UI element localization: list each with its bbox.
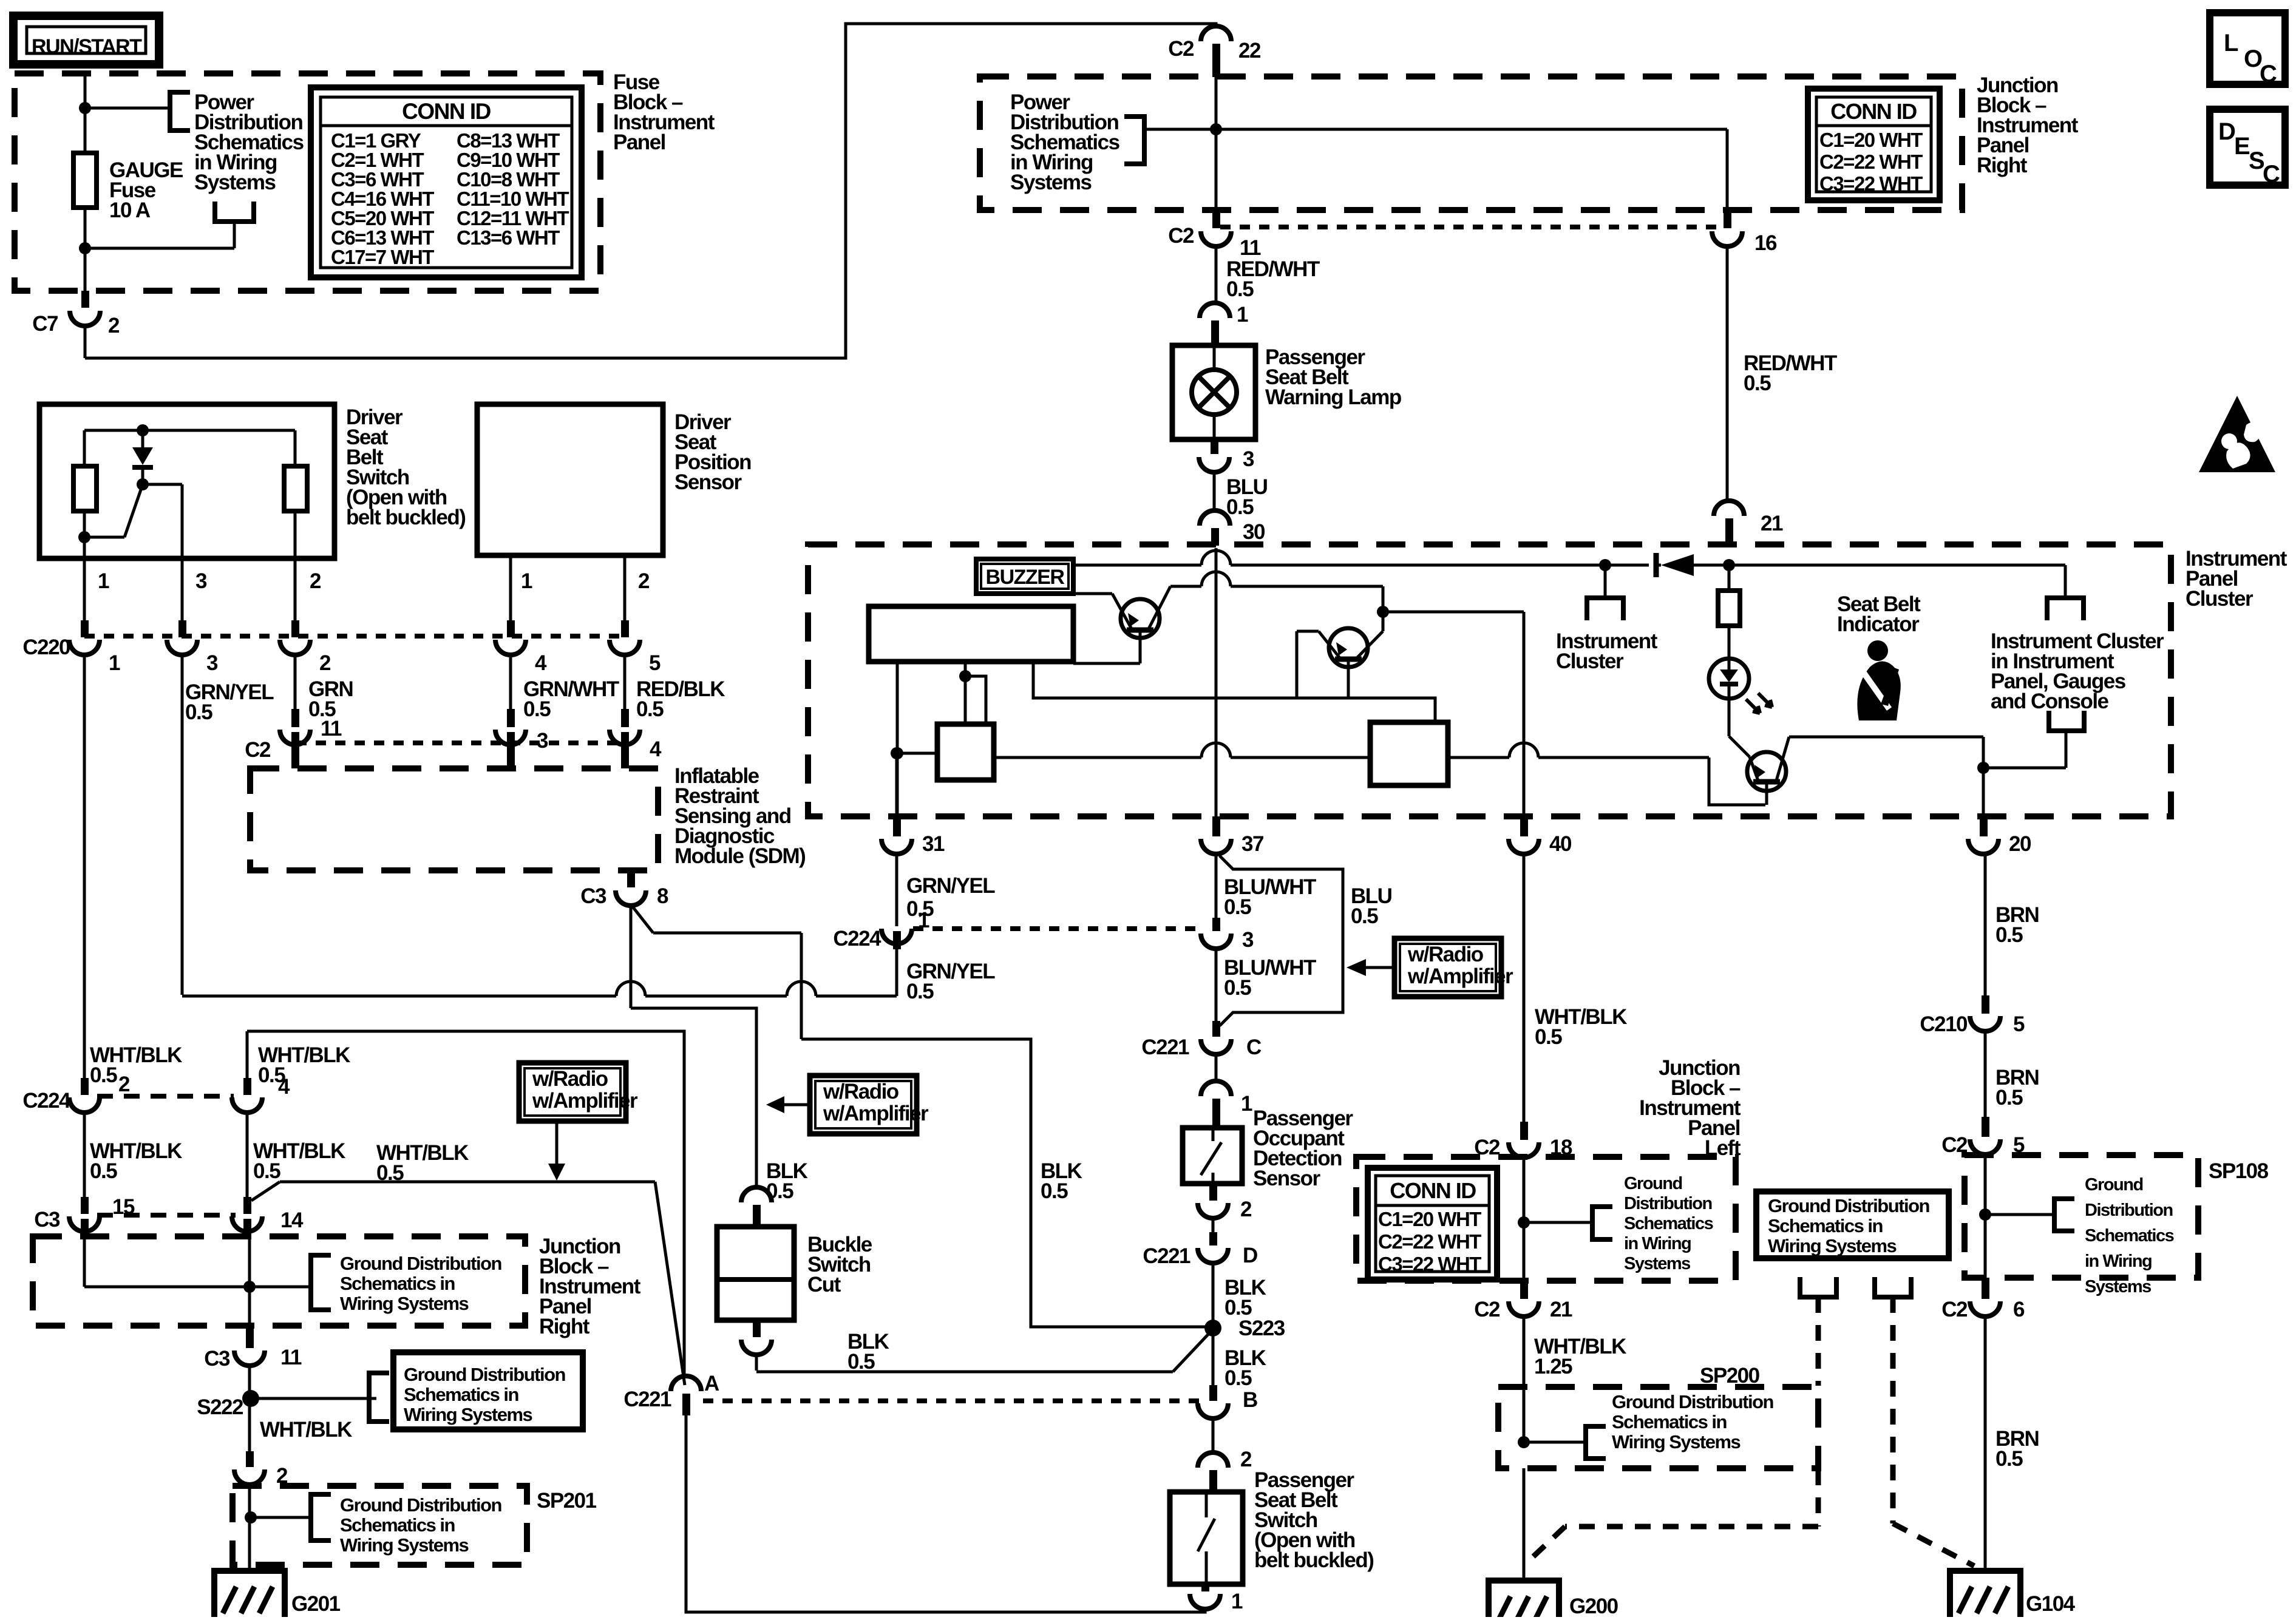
svg-text:SP108: SP108	[2209, 1159, 2269, 1183]
svg-text:Schematics in: Schematics in	[1612, 1411, 1727, 1432]
svg-text:21: 21	[1761, 512, 1783, 535]
svg-text:10 A: 10 A	[109, 198, 151, 222]
svg-text:C: C	[1246, 1035, 1262, 1059]
svg-text:GRN/YEL: GRN/YEL	[906, 874, 995, 898]
svg-text:RUN/START: RUN/START	[32, 35, 142, 58]
svg-text:8: 8	[657, 884, 668, 908]
svg-text:C2: C2	[1941, 1133, 1968, 1157]
svg-text:1: 1	[1241, 1092, 1252, 1116]
svg-text:0.5: 0.5	[906, 980, 934, 1003]
svg-text:Systems: Systems	[2085, 1277, 2151, 1296]
svg-text:Ground Distribution: Ground Distribution	[1768, 1195, 1930, 1216]
svg-text:Wiring Systems: Wiring Systems	[1768, 1235, 1897, 1256]
svg-text:3: 3	[1243, 447, 1254, 471]
svg-text:Cut: Cut	[807, 1273, 841, 1296]
svg-text:C13=6 WHT: C13=6 WHT	[457, 226, 560, 249]
svg-text:0.5: 0.5	[1351, 904, 1378, 928]
svg-text:Systems: Systems	[1010, 171, 1092, 194]
svg-text:2: 2	[118, 1073, 130, 1096]
svg-text:Cluster: Cluster	[1556, 649, 1624, 673]
svg-text:in Wiring: in Wiring	[2085, 1252, 2152, 1271]
svg-text:C210: C210	[1920, 1012, 1968, 1036]
svg-text:w/Amplifier: w/Amplifier	[532, 1089, 638, 1113]
svg-text:BUZZER: BUZZER	[986, 566, 1065, 589]
svg-text:C2: C2	[1168, 37, 1194, 61]
svg-text:Sensor: Sensor	[674, 470, 742, 494]
svg-text:Left: Left	[1705, 1136, 1741, 1160]
svg-text:Wiring Systems: Wiring Systems	[1612, 1431, 1741, 1452]
svg-text:3: 3	[1242, 928, 1254, 952]
svg-text:belt buckled): belt buckled)	[1254, 1548, 1373, 1572]
svg-text:E: E	[2234, 133, 2250, 160]
svg-text:in Wiring: in Wiring	[1624, 1234, 1691, 1253]
svg-text:0.5: 0.5	[1041, 1179, 1068, 1203]
svg-text:Schematics in: Schematics in	[340, 1514, 455, 1536]
svg-text:C221: C221	[1141, 1035, 1189, 1059]
svg-text:w/Radio: w/Radio	[1407, 943, 1484, 966]
svg-text:C: C	[2263, 161, 2280, 188]
svg-text:37: 37	[1241, 832, 1263, 856]
svg-text:C221: C221	[623, 1388, 671, 1411]
svg-text:Panel: Panel	[613, 130, 665, 154]
svg-text:B: B	[1243, 1388, 1257, 1412]
svg-text:Systems: Systems	[194, 171, 276, 194]
svg-text:Schematics: Schematics	[2085, 1226, 2174, 1246]
svg-text:4: 4	[650, 737, 662, 761]
svg-text:Distribution: Distribution	[1624, 1194, 1712, 1213]
svg-text:2: 2	[310, 569, 321, 593]
svg-text:Ground Distribution: Ground Distribution	[340, 1253, 502, 1274]
svg-text:G201: G201	[291, 1592, 341, 1616]
svg-text:Distribution: Distribution	[2085, 1201, 2173, 1220]
svg-text:L: L	[2224, 30, 2238, 56]
svg-text:belt buckled): belt buckled)	[346, 506, 465, 529]
svg-text:2: 2	[108, 314, 120, 337]
svg-text:3: 3	[206, 651, 218, 675]
svg-text:2: 2	[319, 651, 331, 675]
svg-text:1: 1	[98, 569, 109, 593]
svg-text:C: C	[2260, 61, 2277, 87]
svg-text:and Console: and Console	[1991, 690, 2109, 713]
svg-text:C7: C7	[32, 312, 58, 336]
svg-text:4: 4	[535, 651, 547, 675]
svg-text:0.5: 0.5	[1226, 277, 1254, 301]
svg-text:S223: S223	[1238, 1317, 1285, 1340]
svg-text:20: 20	[2009, 832, 2031, 856]
svg-text:Systems: Systems	[1624, 1254, 1690, 1273]
svg-text:G104: G104	[2026, 1592, 2076, 1616]
svg-text:Schematics in: Schematics in	[340, 1273, 455, 1294]
svg-text:5: 5	[2013, 1133, 2025, 1157]
svg-text:3: 3	[537, 729, 548, 753]
svg-text:0.5: 0.5	[1744, 371, 1771, 395]
svg-text:C2: C2	[1941, 1298, 1968, 1321]
svg-text:0.5: 0.5	[90, 1159, 117, 1183]
svg-text:Cluster: Cluster	[2186, 587, 2254, 611]
svg-text:Ground Distribution: Ground Distribution	[404, 1364, 566, 1385]
svg-text:2: 2	[638, 569, 650, 593]
svg-text:0.5: 0.5	[636, 697, 664, 721]
svg-text:C2: C2	[1474, 1136, 1500, 1159]
svg-text:21: 21	[1550, 1298, 1572, 1321]
svg-text:14: 14	[280, 1208, 304, 1232]
svg-text:Schematics in: Schematics in	[1768, 1215, 1883, 1236]
svg-text:0.5: 0.5	[1224, 1366, 1252, 1390]
svg-text:40: 40	[1549, 832, 1572, 856]
svg-text:CONN ID: CONN ID	[1830, 99, 1917, 124]
svg-text:18: 18	[1550, 1136, 1572, 1159]
svg-text:WHT/BLK: WHT/BLK	[260, 1418, 352, 1442]
svg-text:0.5: 0.5	[253, 1159, 280, 1183]
svg-text:C1=20 WHT: C1=20 WHT	[1378, 1208, 1481, 1230]
svg-text:SP201: SP201	[537, 1489, 597, 1513]
svg-text:w/Radio: w/Radio	[823, 1080, 899, 1103]
svg-text:C2=22 WHT: C2=22 WHT	[1378, 1230, 1481, 1253]
svg-text:w/Amplifier: w/Amplifier	[823, 1102, 929, 1125]
svg-text:Schematics in: Schematics in	[404, 1384, 519, 1405]
svg-text:0.5: 0.5	[1995, 923, 2023, 947]
svg-text:0.5: 0.5	[185, 700, 212, 724]
svg-text:w/Amplifier: w/Amplifier	[1407, 964, 1513, 988]
svg-text:5: 5	[649, 651, 661, 675]
svg-text:C221: C221	[1143, 1244, 1190, 1268]
svg-text:Ground Distribution: Ground Distribution	[1612, 1391, 1774, 1412]
svg-text:C3: C3	[34, 1208, 60, 1232]
svg-text:Indicator: Indicator	[1837, 612, 1920, 636]
svg-text:C3: C3	[204, 1347, 230, 1371]
svg-text:C2=22 WHT: C2=22 WHT	[1819, 151, 1923, 173]
svg-text:22: 22	[1238, 39, 1261, 63]
svg-text:0.5: 0.5	[1995, 1447, 2023, 1471]
svg-text:1: 1	[109, 651, 120, 675]
svg-text:Sensor: Sensor	[1253, 1167, 1321, 1190]
svg-text:0.5: 0.5	[1226, 495, 1254, 519]
svg-text:1: 1	[521, 569, 532, 593]
svg-text:C17=7 WHT: C17=7 WHT	[331, 246, 434, 268]
svg-text:0.5: 0.5	[90, 1063, 117, 1087]
svg-text:C3=22 WHT: C3=22 WHT	[1819, 172, 1923, 195]
svg-text:16: 16	[1754, 231, 1777, 255]
svg-text:0.5: 0.5	[1535, 1025, 1562, 1049]
svg-text:G200: G200	[1569, 1595, 1618, 1617]
svg-text:A: A	[704, 1372, 719, 1395]
svg-text:0.5: 0.5	[906, 897, 934, 921]
svg-text:11: 11	[280, 1346, 302, 1369]
svg-text:C220: C220	[22, 635, 70, 659]
svg-text:w/Radio: w/Radio	[532, 1067, 608, 1091]
svg-text:1: 1	[1231, 1590, 1243, 1613]
svg-text:Right: Right	[539, 1315, 590, 1338]
svg-text:Schematics: Schematics	[1624, 1214, 1713, 1233]
svg-text:2: 2	[1240, 1198, 1252, 1221]
svg-text:0.5: 0.5	[847, 1350, 875, 1374]
svg-text:0.5: 0.5	[1224, 976, 1251, 1000]
svg-text:6: 6	[2013, 1298, 2025, 1321]
svg-text:4: 4	[278, 1075, 290, 1099]
svg-text:CONN ID: CONN ID	[1390, 1178, 1476, 1203]
svg-text:30: 30	[1243, 520, 1265, 544]
svg-text:5: 5	[2013, 1012, 2025, 1036]
svg-text:Wiring Systems: Wiring Systems	[404, 1404, 532, 1425]
svg-text:C2: C2	[245, 738, 271, 762]
svg-text:Ground: Ground	[1624, 1174, 1682, 1193]
svg-text:Right: Right	[1977, 154, 2028, 177]
svg-text:C224: C224	[833, 927, 881, 951]
svg-text:D: D	[2218, 118, 2235, 145]
svg-text:0.5: 0.5	[1995, 1086, 2023, 1110]
svg-text:SP200: SP200	[1700, 1364, 1760, 1388]
svg-text:S222: S222	[197, 1395, 243, 1419]
svg-text:0.5: 0.5	[1224, 895, 1251, 919]
svg-text:C2: C2	[1168, 224, 1194, 248]
svg-text:Warning Lamp: Warning Lamp	[1265, 385, 1401, 409]
svg-text:31: 31	[922, 832, 945, 856]
svg-text:3: 3	[195, 569, 207, 593]
svg-text:0.5: 0.5	[523, 697, 551, 721]
svg-text:1: 1	[1237, 303, 1248, 327]
svg-text:Ground Distribution: Ground Distribution	[340, 1494, 502, 1516]
svg-text:C224: C224	[22, 1089, 71, 1113]
svg-text:Module (SDM): Module (SDM)	[674, 844, 805, 868]
svg-text:11: 11	[1240, 236, 1261, 260]
svg-text:C1=20 WHT: C1=20 WHT	[1819, 129, 1923, 151]
svg-text:Wiring Systems: Wiring Systems	[340, 1293, 469, 1314]
svg-text:C3: C3	[580, 884, 606, 908]
svg-text:2: 2	[1240, 1448, 1252, 1471]
svg-text:C2: C2	[1474, 1298, 1500, 1321]
svg-text:Wiring Systems: Wiring Systems	[340, 1534, 469, 1556]
svg-text:D: D	[1243, 1244, 1257, 1267]
svg-text:C3=22 WHT: C3=22 WHT	[1378, 1253, 1481, 1275]
svg-text:1.25: 1.25	[1534, 1355, 1572, 1378]
svg-text:Ground: Ground	[2085, 1175, 2143, 1195]
svg-text:CONN ID: CONN ID	[402, 99, 491, 124]
svg-text:11: 11	[321, 717, 342, 741]
